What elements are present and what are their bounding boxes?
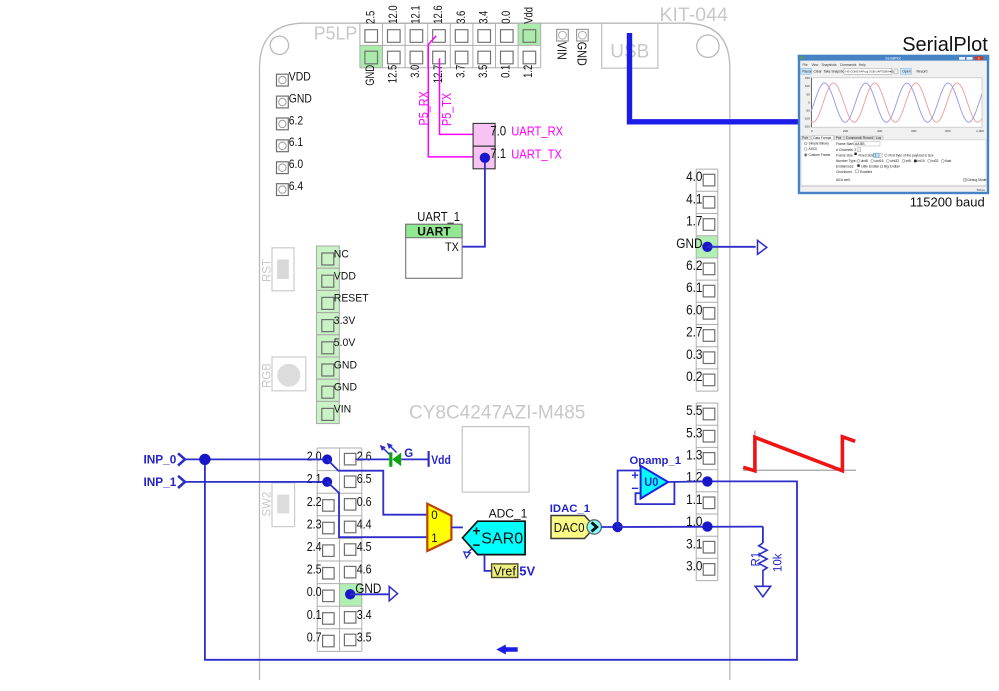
svg-text:GND: GND [334, 382, 357, 394]
svg-text:VIN: VIN [334, 404, 351, 416]
svg-text:UART_RX: UART_RX [511, 125, 563, 139]
svg-text:4.5: 4.5 [357, 540, 372, 554]
svg-text:INP_1: INP_1 [144, 475, 177, 489]
svg-text:150: 150 [805, 76, 810, 80]
svg-text:12.0: 12.0 [386, 5, 400, 24]
svg-text:U0: U0 [644, 475, 658, 489]
svg-text:2.5: 2.5 [307, 563, 322, 577]
svg-text:uint8: uint8 [861, 159, 868, 163]
svg-text:Opamp_1: Opamp_1 [630, 455, 681, 467]
svg-text:Data Format: Data Format [813, 136, 831, 140]
svg-text:View: View [812, 63, 820, 67]
svg-text:DAC0: DAC0 [554, 521, 585, 535]
svg-text:800: 800 [945, 129, 950, 133]
svg-text:1.7: 1.7 [686, 214, 702, 229]
svg-text:Open: Open [902, 70, 910, 74]
svg-text:All is well.: All is well. [836, 178, 851, 182]
svg-text:RGB: RGB [262, 363, 274, 388]
svg-text:0.6: 0.6 [357, 495, 372, 509]
svg-text:3.4: 3.4 [357, 608, 372, 622]
svg-text:0: 0 [808, 100, 810, 104]
svg-text:−: − [472, 538, 480, 553]
svg-text:3.5: 3.5 [357, 630, 372, 644]
svg-text:Pause: Pause [802, 70, 812, 74]
svg-text:200: 200 [843, 129, 848, 133]
svg-text:2.3: 2.3 [307, 517, 322, 531]
svg-text:int8: int8 [906, 159, 911, 163]
svg-text:0.1: 0.1 [307, 608, 322, 622]
svg-text:Vref: Vref [493, 564, 516, 578]
svg-text:600: 600 [911, 129, 916, 133]
svg-text:TX: TX [445, 240, 459, 254]
svg-text:CY8C4247AZI-M485: CY8C4247AZI-M485 [409, 403, 585, 424]
svg-text:x: x [978, 56, 980, 60]
svg-text:Commands: Commands [840, 63, 857, 67]
svg-text:GND: GND [334, 359, 357, 371]
svg-text:uint16: uint16 [874, 159, 883, 163]
svg-text:SerialPlot: SerialPlot [885, 57, 900, 61]
svg-text:✓: ✓ [964, 178, 967, 182]
svg-text:1: 1 [431, 533, 437, 545]
svg-text:VIN: VIN [555, 42, 570, 60]
svg-text:10k: 10k [773, 553, 785, 572]
svg-text:2.0: 2.0 [307, 450, 322, 464]
svg-text:-150: -150 [804, 125, 810, 129]
svg-text:SerialPlot: SerialPlot [902, 34, 988, 56]
svg-text:Enabled: Enabled [860, 170, 872, 174]
svg-text:UART_TX: UART_TX [511, 148, 562, 162]
svg-text:Frame Start:: Frame Start: [836, 142, 854, 146]
svg-text:GND: GND [676, 236, 702, 251]
svg-text:6.1: 6.1 [686, 280, 702, 295]
svg-text:First byte of the payload is s: First byte of the payload is size [889, 153, 934, 157]
svg-text:SAR0: SAR0 [481, 531, 523, 548]
svg-text:4.1: 4.1 [686, 191, 702, 206]
svg-text:1.1: 1.1 [686, 492, 702, 507]
svg-text:7.0: 7.0 [490, 124, 506, 139]
svg-text:AA BB: AA BB [855, 142, 865, 146]
svg-text:uint32: uint32 [890, 159, 899, 163]
svg-text:115200 baud: 115200 baud [910, 195, 985, 210]
svg-text:0: 0 [431, 510, 437, 522]
svg-text:ASCII: ASCII [809, 147, 818, 151]
svg-text:50bps: 50bps [977, 188, 986, 192]
svg-text:6.0: 6.0 [686, 302, 702, 317]
svg-text:5V: 5V [519, 564, 535, 579]
svg-text:GND: GND [575, 42, 590, 66]
svg-text:RST: RST [262, 259, 274, 282]
svg-text:1,000: 1,000 [976, 129, 984, 133]
svg-text:Snapshots: Snapshots [822, 63, 837, 67]
svg-text:Port: Port [802, 136, 808, 140]
svg-text:0.1: 0.1 [499, 65, 513, 78]
svg-text:0.0: 0.0 [307, 585, 322, 599]
svg-text:3.6: 3.6 [454, 10, 468, 23]
svg-text:UART: UART [417, 224, 451, 238]
svg-text:Number Type:: Number Type: [836, 159, 857, 163]
svg-text:Record: Record [863, 136, 874, 140]
svg-text:-100: -100 [804, 117, 810, 121]
svg-text:Record: Record [917, 70, 928, 74]
svg-text:Simple Binary: Simple Binary [809, 142, 830, 146]
svg-text:KIT-044: KIT-044 [660, 4, 728, 26]
svg-text:GND: GND [289, 91, 312, 105]
svg-text:3.0: 3.0 [686, 559, 702, 574]
svg-text:3.5: 3.5 [476, 64, 490, 77]
svg-text:int16: int16 [918, 159, 925, 163]
svg-text:6.0: 6.0 [289, 157, 304, 171]
svg-text:Custom Frame: Custom Frame [809, 153, 831, 157]
svg-text:Endianness:: Endianness: [836, 165, 854, 169]
svg-text:4.0: 4.0 [686, 169, 702, 184]
svg-text:GND: GND [355, 581, 381, 596]
svg-text:0.7: 0.7 [307, 630, 322, 644]
svg-text:int32: int32 [931, 159, 938, 163]
svg-text:3.0: 3.0 [408, 64, 422, 77]
svg-text:1: 1 [875, 153, 877, 157]
svg-text:2.7: 2.7 [686, 325, 702, 340]
svg-text:50: 50 [807, 92, 811, 96]
svg-text:Frame Size:: Frame Size: [836, 153, 854, 157]
svg-text:6.5: 6.5 [357, 472, 372, 486]
svg-text:4.4: 4.4 [357, 517, 372, 531]
svg-text:Commands: Commands [846, 136, 863, 140]
svg-text:VDD: VDD [289, 70, 311, 84]
svg-text:3.4: 3.4 [476, 10, 490, 23]
svg-text:Big Endian: Big Endian [884, 165, 900, 169]
svg-text:6.4: 6.4 [289, 179, 304, 193]
svg-text:2.4: 2.4 [307, 540, 322, 554]
svg-text:12.6: 12.6 [431, 5, 445, 24]
svg-text:Little Endian: Little Endian [861, 165, 879, 169]
svg-text:100: 100 [805, 84, 810, 88]
svg-text:5.3: 5.3 [686, 425, 702, 440]
svg-text:UART_1: UART_1 [417, 209, 460, 224]
svg-text:3.1: 3.1 [686, 536, 702, 551]
svg-text:File: File [803, 63, 808, 67]
svg-text:P5LP: P5LP [314, 22, 357, 43]
svg-text:Debug Mode: Debug Mode [968, 178, 987, 182]
svg-text:0: 0 [811, 129, 813, 133]
svg-text:-50: -50 [806, 108, 811, 112]
svg-text:INP_0: INP_0 [144, 453, 177, 467]
svg-text:P5_TX: P5_TX [439, 93, 454, 126]
svg-text:RESET: RESET [334, 293, 369, 305]
svg-text:6.2: 6.2 [686, 258, 702, 273]
svg-text:12.5: 12.5 [386, 64, 400, 83]
svg-text:Log: Log [876, 136, 882, 140]
svg-text:VDD: VDD [334, 271, 356, 283]
svg-text:GND: GND [363, 65, 377, 86]
svg-text:0.0: 0.0 [499, 10, 513, 23]
svg-text:# Channels:: # Channels: [836, 148, 854, 152]
svg-text:12.1: 12.1 [409, 5, 423, 23]
svg-text:SW2: SW2 [262, 492, 274, 517]
svg-text:Checksum:: Checksum: [836, 170, 853, 174]
svg-text:6.1: 6.1 [289, 135, 304, 149]
svg-text:0.3: 0.3 [686, 347, 702, 362]
svg-text:Take Snapshot: Take Snapshot [824, 70, 846, 74]
svg-text:G: G [404, 448, 413, 460]
svg-text:Help: Help [859, 63, 866, 67]
svg-text:NC: NC [334, 248, 349, 260]
svg-text:+: + [472, 524, 480, 539]
svg-text:400: 400 [877, 129, 882, 133]
svg-text:float: float [945, 159, 951, 163]
svg-text:1.2: 1.2 [521, 65, 535, 78]
svg-text:3.7: 3.7 [453, 65, 467, 78]
svg-text:7.1: 7.1 [490, 146, 506, 161]
svg-text:Clear: Clear [814, 70, 823, 74]
svg-text:5.0V: 5.0V [334, 337, 356, 349]
svg-text:Fixed Size: Fixed Size [859, 153, 875, 157]
svg-text:5.5: 5.5 [686, 403, 702, 418]
svg-text:Vdd: Vdd [522, 7, 536, 24]
svg-text:IDAC_1: IDAC_1 [550, 503, 590, 515]
svg-text:12.7: 12.7 [431, 65, 445, 83]
svg-text:6.2: 6.2 [289, 113, 304, 127]
svg-text:3.3V: 3.3V [334, 315, 356, 327]
svg-text:2.6: 2.6 [357, 450, 372, 464]
svg-text:Vdd: Vdd [431, 453, 451, 467]
svg-text:Plot: Plot [836, 136, 842, 140]
svg-text:1.3: 1.3 [686, 448, 702, 463]
svg-text:ADC_1: ADC_1 [489, 506, 528, 520]
svg-text:2: 2 [855, 148, 857, 152]
svg-text:2.1: 2.1 [307, 472, 322, 486]
svg-text:4.6: 4.6 [357, 563, 372, 577]
svg-text:P5_RX: P5_RX [416, 91, 431, 125]
svg-text:2.2: 2.2 [307, 495, 322, 509]
svg-text:R1: R1 [751, 552, 763, 567]
svg-text:2.5: 2.5 [363, 10, 377, 23]
svg-text:0.2: 0.2 [686, 369, 702, 384]
